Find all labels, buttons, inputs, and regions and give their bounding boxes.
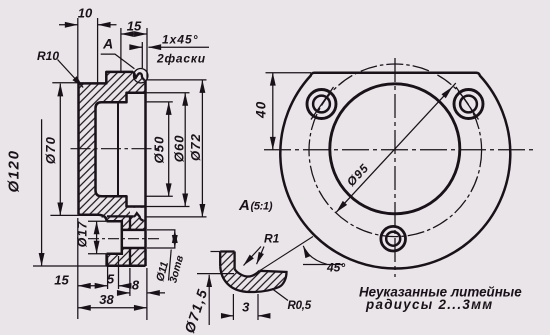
outer profile top [79, 72, 134, 84]
dim 15 bottom [78, 285, 107, 287]
bolt hole top-right [460, 96, 477, 113]
dia95 dimension diagonal [336, 87, 452, 212]
dia120: ext bottom + dim line [33, 265, 107, 267]
svg-text:45°: 45° [326, 261, 345, 275]
flange bottom [107, 265, 146, 268]
svg-text:A: A [102, 36, 113, 52]
dia50 dim [168, 102, 170, 196]
svg-text:R1: R1 [264, 232, 280, 246]
svg-text:40: 40 [254, 101, 269, 119]
dim 38 [78, 307, 147, 309]
section material hatch: below bolt hole [107, 248, 146, 266]
dia70 dim [59, 84, 61, 216]
40 dim [266, 72, 312, 74]
hub bottom [79, 215, 107, 222]
left face vertical [77, 83, 80, 214]
svg-text:1x45°: 1x45° [162, 33, 199, 47]
svg-text:(5:1): (5:1) [251, 201, 273, 213]
hub top/bottom ext [50, 83, 78, 216]
right face vertical [144, 80, 147, 266]
svg-text:A: A [238, 197, 250, 214]
counterbore d17 walls [107, 221, 122, 253]
svg-text:радиусы 2...3мм: радиусы 2...3мм [365, 297, 494, 312]
thin level line [197, 273, 234, 275]
svg-text:Ø50: Ø50 [152, 136, 167, 164]
detail A indicator circle [134, 69, 148, 83]
hatch fills [220, 252, 234, 269]
R0,5 leader [272, 289, 288, 301]
web face vertical [129, 216, 131, 266]
hole d11 walls [122, 230, 146, 248]
svg-text:8: 8 [132, 278, 140, 293]
inner bore profile top [96, 93, 146, 207]
svg-text:15: 15 [127, 19, 142, 34]
vertical centerline [394, 58, 396, 277]
bottom groove [134, 213, 144, 220]
groove notch white cutout bottom right [130, 208, 146, 220]
svg-text:15: 15 [54, 273, 69, 288]
svg-text:10: 10 [78, 6, 93, 21]
bolt hole bottom [386, 232, 400, 246]
dim 5: outside arrows [119, 285, 128, 287]
outline: circle with flat top [280, 73, 510, 269]
svg-text:R10: R10 [37, 49, 59, 63]
dim 10 [59, 24, 78, 26]
dia60 dim [184, 93, 186, 206]
groove at right face (detail A area) [133, 72, 145, 80]
flange left faces and bolt boss bottom [107, 215, 134, 217]
dia11 ext + dim [147, 230, 176, 248]
svg-text:R0,5: R0,5 [288, 300, 312, 312]
central bore circle [330, 84, 460, 214]
chamfer leader [133, 46, 142, 48]
bottom ext lines [78, 218, 147, 320]
counterbore step edge seen through bore [117, 102, 119, 196]
svg-text:Ø60: Ø60 [171, 134, 186, 162]
svg-text:Ø70: Ø70 [43, 136, 58, 164]
ext of top surface (dia71.5) [211, 251, 221, 253]
dia72 dim [201, 80, 203, 217]
dia17 ext + dim [88, 221, 107, 253]
svg-text:3: 3 [242, 300, 250, 315]
bolt hole centerline [88, 238, 162, 240]
bolt circle dash-dot [309, 64, 482, 237]
svg-text:5: 5 [107, 272, 115, 287]
svg-text:38: 38 [99, 292, 114, 307]
dia71,5 dim [208, 275, 210, 325]
dim 15 top [121, 33, 147, 35]
horizontal centerline [264, 149, 534, 151]
svg-text:Ø17: Ø17 [76, 221, 90, 248]
45deg dim [303, 264, 343, 266]
A leader [101, 54, 135, 69]
R10 leader [58, 60, 84, 88]
ext lines top [78, 18, 147, 83]
svg-text:Ø120: Ø120 [6, 149, 23, 192]
dim 8 [120, 292, 130, 294]
bolt hole top-left [313, 96, 330, 113]
boss face vertical below counterbore [105, 254, 108, 266]
svg-text:2фаски: 2фаски [156, 52, 206, 66]
dim 3 [233, 294, 258, 320]
section material hatch: upper region [79, 72, 146, 230]
centerline of bore axis [71, 148, 161, 150]
chamfer 45 line extended [260, 237, 314, 271]
svg-text:Ø72: Ø72 [188, 133, 203, 161]
right side ext lines for dia50/60/72 [146, 80, 207, 217]
detail outline [220, 252, 234, 269]
R1 leaders [244, 247, 262, 266]
